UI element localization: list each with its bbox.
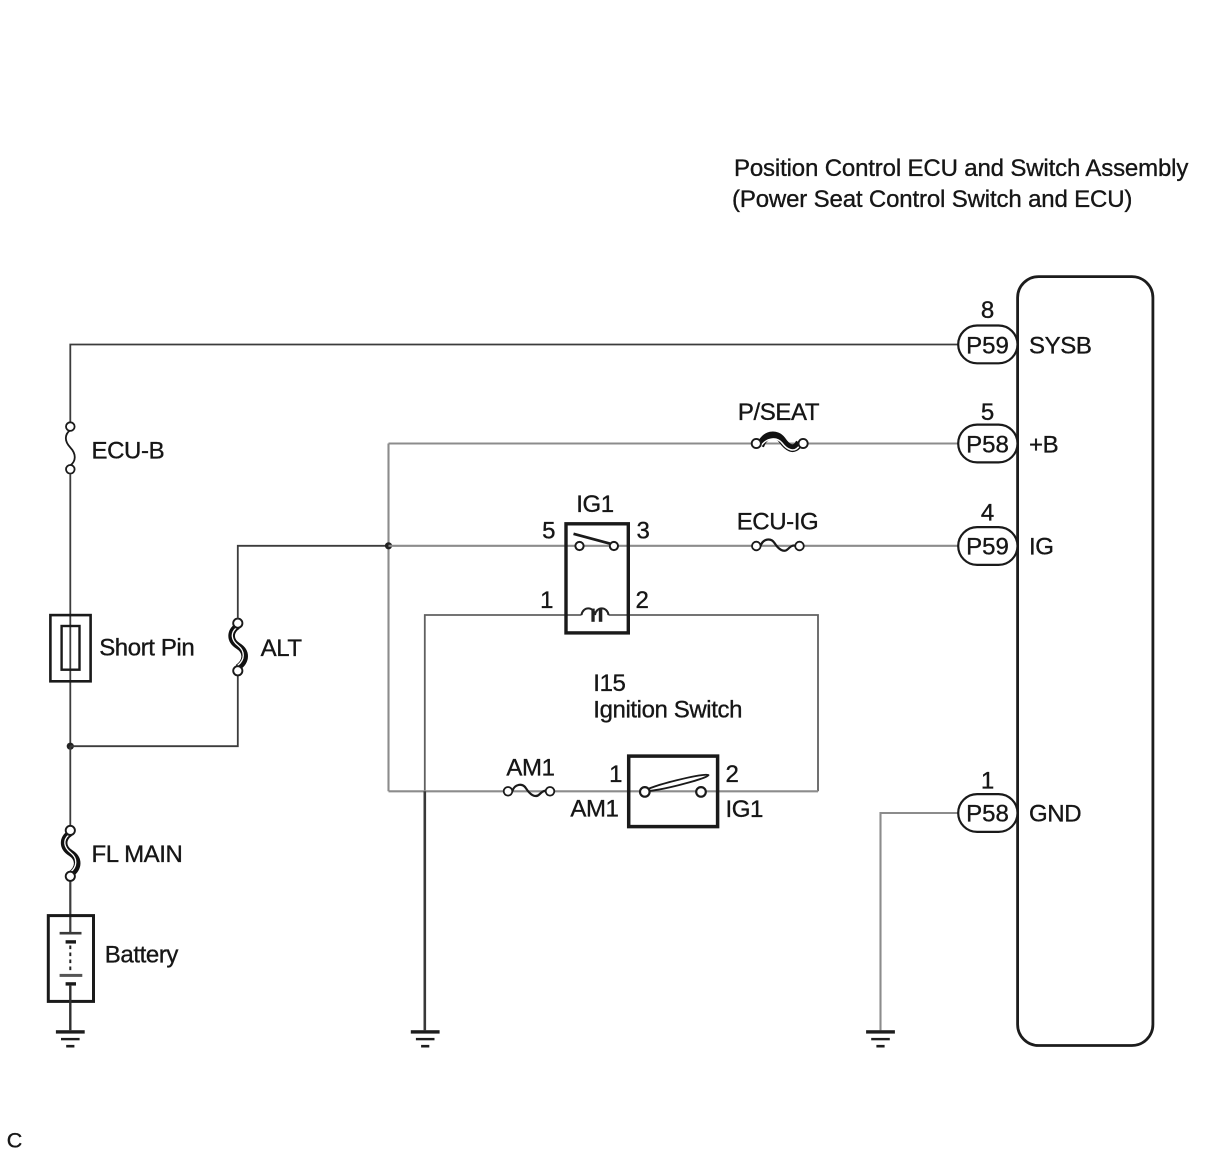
I15 ignition switch outline box <box>425 615 818 791</box>
wire FL MAIN down to battery <box>69 875 71 933</box>
connector P58 pin 1 GND <box>958 794 1017 832</box>
connector P58 pin 5 +B <box>958 425 1017 463</box>
svg-text:ECU-IG: ECU-IG <box>737 509 819 536</box>
title: Position Control ECU and Switch Assembly <box>732 155 1188 213</box>
svg-text:P59: P59 <box>966 534 1009 561</box>
IG1 contact pin 3 <box>610 542 618 550</box>
connector P59 pin 4 IG <box>958 527 1017 565</box>
svg-text:AM1: AM1 <box>506 755 554 782</box>
svg-text:AM1: AM1 <box>570 796 618 823</box>
svg-text:Ignition Switch: Ignition Switch <box>593 697 742 724</box>
svg-text:P58: P58 <box>966 801 1009 828</box>
svg-text:IG: IG <box>1029 534 1054 561</box>
svg-text:P59: P59 <box>966 333 1009 360</box>
wire AM1 run (node B to I15 right edge) <box>389 790 819 792</box>
svg-text:FL MAIN: FL MAIN <box>92 841 183 868</box>
ground (ECU GND) <box>866 1030 895 1047</box>
wire ECU-B fuse down to junction A <box>69 474 71 747</box>
svg-text:1: 1 <box>609 761 622 788</box>
svg-text:GND: GND <box>1029 801 1081 828</box>
svg-text:C: C <box>7 1129 23 1153</box>
connector P59 pin 8 SYSB <box>958 326 1017 364</box>
ground (I15) <box>411 1030 440 1047</box>
fusible link ALT <box>232 619 245 676</box>
wire IG run to pin 4 <box>389 545 959 547</box>
short pin component <box>50 615 90 681</box>
contact terminal 1 (AM1) <box>640 787 650 797</box>
fuse ECU-B <box>66 422 75 473</box>
coil of IG1 key switch (on I15 top edge) <box>582 608 609 621</box>
wire I15 ground lead <box>423 791 426 1030</box>
svg-text:1: 1 <box>981 768 994 795</box>
svg-text:8: 8 <box>981 297 994 324</box>
IG1 contact pin 5 <box>575 542 583 550</box>
wire +B run to pin 5 <box>389 442 959 444</box>
wire SYSB net (ECU-B fuse up, across to pin 8) <box>70 345 958 427</box>
fusible link FL MAIN <box>64 826 77 881</box>
svg-text:4: 4 <box>981 500 994 527</box>
wire GND run (pin 1 to ground) <box>881 813 959 1030</box>
svg-text:2: 2 <box>726 761 739 788</box>
svg-text:Position Control ECU and Switc: Position Control ECU and Switch Assembly <box>734 155 1188 182</box>
svg-text:(Power Seat Control Switch and: (Power Seat Control Switch and ECU) <box>732 186 1132 213</box>
svg-text:2: 2 <box>636 587 649 614</box>
svg-text:SYSB: SYSB <box>1029 333 1091 360</box>
switch blade (AM1 to IG1) <box>645 773 709 794</box>
svg-text:5: 5 <box>542 518 555 545</box>
svg-text:P/SEAT: P/SEAT <box>738 399 820 426</box>
ground (battery) <box>56 1030 85 1047</box>
wire ALT up to node B <box>238 546 389 619</box>
svg-text:ALT: ALT <box>261 635 303 662</box>
fusible link P/SEAT <box>752 435 808 450</box>
ECU box U1 (Position Control ECU and Switch Assembly) <box>1018 277 1153 1046</box>
svg-text:P58: P58 <box>966 432 1009 459</box>
svg-text:+B: +B <box>1029 432 1058 459</box>
ignition switch AM1-IG1 contact box <box>629 756 718 827</box>
fuse AM1 <box>504 785 555 796</box>
svg-text:Short Pin: Short Pin <box>99 635 194 662</box>
svg-text:ECU-B: ECU-B <box>92 438 165 465</box>
IG1 switch lever <box>574 534 610 544</box>
wire junction A down to FL MAIN <box>69 746 71 826</box>
wire riser node B (between +B run and AM1 run) <box>387 444 389 792</box>
battery component <box>48 916 93 1002</box>
wire junction A to ALT branch <box>70 675 238 746</box>
switch IG1 (key switch contact box) <box>566 524 628 633</box>
node A junction (battery trunk / ALT branch) <box>67 743 74 750</box>
contact terminal 2 (IG1) <box>696 787 706 797</box>
svg-text:5: 5 <box>981 399 994 426</box>
fuse ECU-IG <box>752 540 804 551</box>
svg-text:IG1: IG1 <box>726 796 764 823</box>
svg-text:I15: I15 <box>593 670 625 697</box>
svg-text:Battery: Battery <box>105 942 179 969</box>
node B junction <box>385 542 392 549</box>
wire battery to ground <box>69 986 71 1031</box>
svg-text:3: 3 <box>637 518 650 545</box>
svg-text:1: 1 <box>540 587 553 614</box>
svg-text:IG1: IG1 <box>576 491 614 518</box>
